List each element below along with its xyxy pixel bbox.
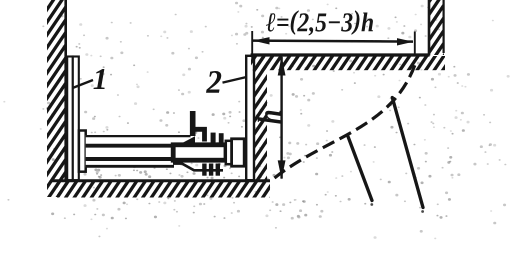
rods underlay xyxy=(86,135,174,168)
handle stem xyxy=(190,111,196,136)
leader line for label 2 xyxy=(223,77,247,83)
wall plank 2 (item 2) xyxy=(246,56,254,180)
vertical dimension bottom arrow xyxy=(278,160,286,179)
wall plank 1 (thrust board, item 1) xyxy=(67,57,73,181)
ground surface hatch xyxy=(251,56,445,70)
leader line for label 1 xyxy=(73,80,94,88)
vertical dimension line h xyxy=(280,57,282,179)
dimension extension line right xyxy=(414,32,416,56)
label 1 xyxy=(93,69,104,89)
vertical dimension top arrow xyxy=(278,56,286,75)
label 2 xyxy=(206,71,221,93)
right bank wall right edge xyxy=(443,0,445,53)
jack body xyxy=(173,145,226,160)
rod 2 / rod 3 joint xyxy=(86,157,174,161)
slope tick line 1 end blob xyxy=(370,203,373,206)
ribbed collar xyxy=(202,164,206,176)
right bank wall left edge xyxy=(428,0,431,56)
dimension arrow right xyxy=(397,38,413,45)
left wall inner edge xyxy=(64,0,67,181)
right bank wall hatch xyxy=(430,0,445,55)
rod 1 / rod 2 joint xyxy=(86,144,174,148)
body tab a xyxy=(211,133,216,143)
wall 2 soil hatch xyxy=(255,57,268,180)
handle gusset xyxy=(182,136,196,143)
ground surface line xyxy=(251,53,430,56)
slope tick line 2 xyxy=(392,98,423,208)
handle arm xyxy=(194,129,205,141)
dimension extension line left xyxy=(251,31,253,59)
rod 3 bottom edge xyxy=(86,165,174,168)
dimension arrow left xyxy=(253,37,270,44)
machine thrust plate xyxy=(79,131,86,172)
slope tick line 2 end blob xyxy=(421,210,424,213)
body taper contour xyxy=(173,164,223,171)
head block a xyxy=(226,141,232,164)
dimension label l=(2,5-3)h xyxy=(266,10,373,35)
head block b xyxy=(232,139,245,166)
dashed slip arc xyxy=(275,62,417,178)
dimension line l xyxy=(253,41,413,42)
pit floor soil hatch xyxy=(57,182,270,198)
body tab b xyxy=(219,133,224,142)
slope tick line 1 xyxy=(348,137,372,201)
rod 1 top edge xyxy=(86,135,191,137)
pit floor line xyxy=(51,179,270,182)
left wall soil hatch xyxy=(47,0,67,197)
label h (rotated) xyxy=(258,111,281,124)
